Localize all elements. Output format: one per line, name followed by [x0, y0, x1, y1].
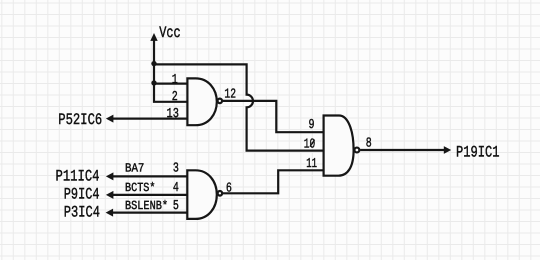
svg-text:5: 5 [173, 199, 179, 214]
svg-text:6: 6 [226, 182, 232, 197]
svg-text:1: 1 [172, 73, 178, 88]
svg-text:P11IC4: P11IC4 [56, 167, 100, 185]
svg-text:BSLENB*: BSLENB* [125, 199, 168, 213]
svg-text:BCTS*: BCTS* [125, 181, 156, 195]
svg-text:P52IC6: P52IC6 [58, 111, 102, 129]
svg-text:13: 13 [167, 107, 179, 122]
svg-text:12: 12 [224, 88, 236, 103]
svg-text:P19IC1: P19IC1 [456, 143, 500, 161]
svg-text:4: 4 [173, 181, 179, 196]
svg-text:BA7: BA7 [125, 162, 144, 176]
svg-text:P3IC4: P3IC4 [64, 204, 100, 222]
svg-text:10: 10 [304, 137, 315, 152]
svg-text:3: 3 [173, 162, 179, 177]
svg-text:8: 8 [366, 137, 372, 152]
svg-text:2: 2 [172, 90, 178, 105]
svg-text:11: 11 [306, 157, 317, 172]
svg-text:9: 9 [309, 118, 315, 133]
svg-text:Vcc: Vcc [159, 24, 181, 42]
svg-text:P9IC4: P9IC4 [64, 185, 100, 203]
